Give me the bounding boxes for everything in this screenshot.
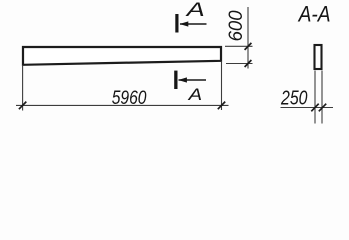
svg-text:A: A xyxy=(187,85,202,104)
section A-A outline (beam cross-section) xyxy=(315,45,322,69)
extension line bottom of 600 dimension xyxy=(226,63,253,65)
section cut mark A (upper): thick bar xyxy=(175,14,178,33)
tick at left of 250 dimension xyxy=(311,104,318,112)
extension line top of 600 dimension xyxy=(225,45,253,47)
beam elevation outline xyxy=(23,47,221,65)
section cut mark A (upper): arrowhead xyxy=(180,21,189,26)
dimension line 250 (horizontal) xyxy=(281,107,334,109)
tick at left of 5960 dimension xyxy=(19,102,26,110)
svg-text:A: A xyxy=(185,0,204,21)
svg-text:A-A: A-A xyxy=(297,1,331,26)
section cut mark A (upper): arrow line xyxy=(180,23,207,25)
extension line right of 5960 dimension xyxy=(221,62,223,110)
tick at right of 250 dimension xyxy=(319,104,326,112)
extension line left of 5960 dimension xyxy=(22,66,24,111)
svg-text:5960: 5960 xyxy=(112,87,147,109)
section cut mark A (lower): thick bar xyxy=(174,71,177,89)
dimension line 600 (vertical) xyxy=(247,7,249,69)
section cut mark A (lower): arrowhead xyxy=(178,77,187,82)
svg-text:250: 250 xyxy=(280,88,307,110)
svg-text:600: 600 xyxy=(225,10,247,41)
tick at right of 5960 dimension xyxy=(218,102,225,110)
extension line left of 250 dimension xyxy=(314,71,316,124)
tick at bottom of 600 dimension xyxy=(245,60,252,67)
extension line right of 250 dimension xyxy=(321,71,323,124)
section cut mark A (lower): arrow line xyxy=(179,79,207,81)
tick at top of 600 dimension xyxy=(245,43,252,50)
dimension line 5960 (horizontal) xyxy=(16,104,229,106)
